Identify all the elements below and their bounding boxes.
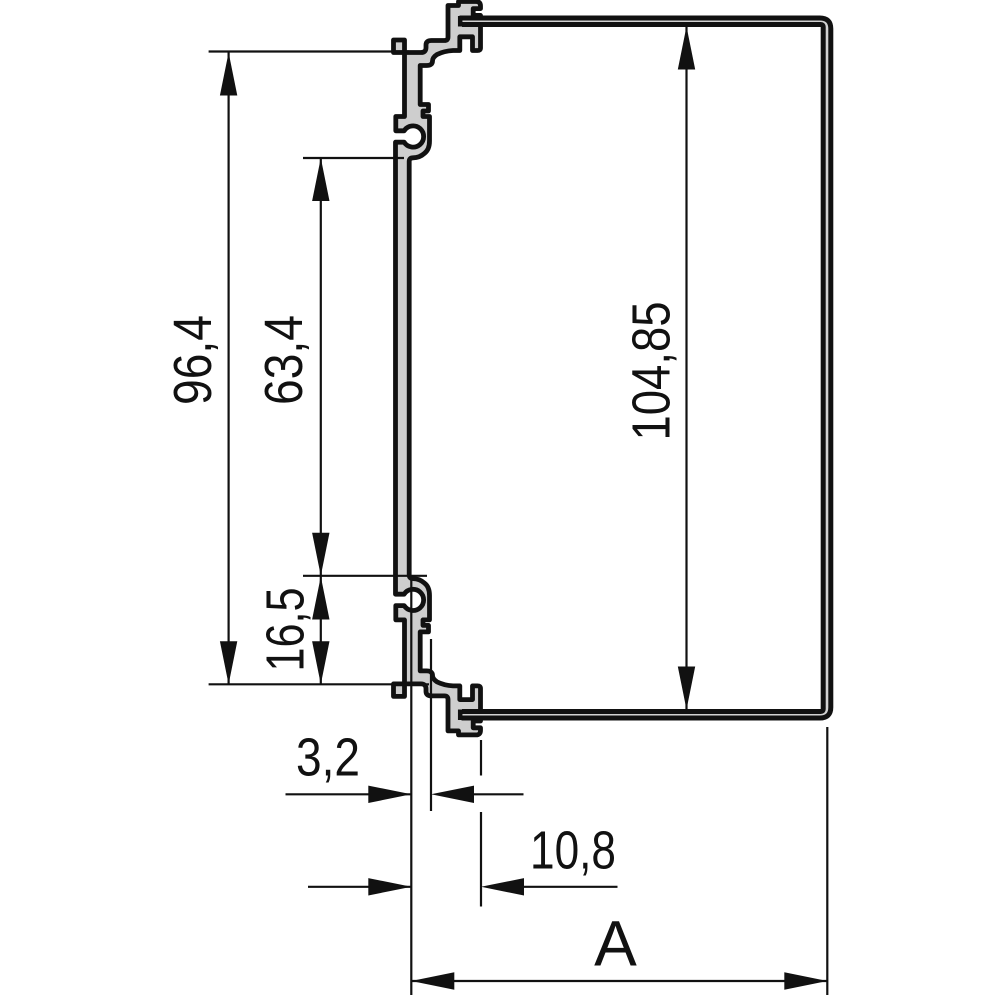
- sheet slot end connector bottom: [458, 710, 463, 721]
- svg-text:96,4: 96,4: [164, 315, 223, 405]
- side panel sheet inner line: [462, 25, 823, 712]
- dimension 104,85 line: [685, 27, 687, 710]
- extension line bottom 96,4 / 16,5: [209, 683, 429, 685]
- svg-text:16,5: 16,5: [257, 588, 316, 672]
- dimension 16,5 line: [320, 577, 322, 685]
- dimension 10,8 lines and arrows: [308, 886, 411, 888]
- svg-text:A: A: [594, 908, 637, 980]
- extension line top 96,4: [209, 50, 409, 52]
- svg-text:104,85: 104,85: [623, 302, 682, 441]
- extension line x=481 for 10,8 lower segment: [480, 812, 482, 907]
- dimension 3,2 lines and arrows: [286, 793, 412, 795]
- dimension 96,4 line: [228, 53, 230, 685]
- side panel sheet middle gap: [461, 21, 828, 715]
- svg-text:63,4: 63,4: [255, 315, 314, 405]
- extension line 63,4 / 16,5 boundary: [303, 575, 427, 577]
- extrusion profile cross-section: [394, 2, 481, 735]
- svg-text:3,2: 3,2: [296, 729, 360, 788]
- svg-text:10,8: 10,8: [530, 822, 616, 881]
- dimension 63,4 line: [320, 158, 322, 576]
- dimension A line: [411, 980, 827, 982]
- extension line tab face x=431: [430, 639, 432, 811]
- side panel sheet outer line: [460, 18, 831, 718]
- extension line top 63,4: [303, 157, 404, 159]
- extension line x=481 for 10,8 upper segment: [480, 740, 482, 776]
- extension line web right face x=411.3: [410, 578, 412, 995]
- extension line sheet right x=827.3 for A: [826, 727, 828, 995]
- sheet slot end connector top: [458, 16, 463, 27]
